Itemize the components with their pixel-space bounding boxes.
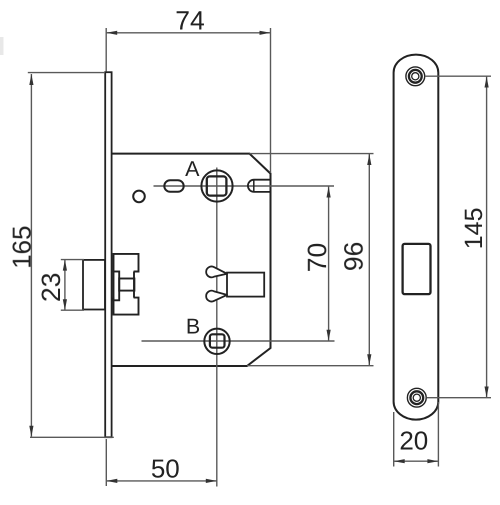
upper spring tab (teardrop) <box>206 267 227 278</box>
left oval slot <box>164 180 183 192</box>
dim 50 line <box>106 439 217 486</box>
dim 20 line <box>394 402 439 467</box>
latch bolt <box>83 260 105 310</box>
latch follower bottom flange <box>114 298 139 315</box>
svg-text:74: 74 <box>175 5 204 35</box>
bottom edge extension line (to 96 dim) <box>247 365 374 367</box>
dim 70 line <box>327 187 331 341</box>
vertical centre line <box>216 168 218 487</box>
dim 145 line <box>425 76 491 398</box>
latch follower narrow strip <box>114 272 120 301</box>
svg-text:23: 23 <box>36 273 66 302</box>
horizontal centre line through A <box>154 185 335 187</box>
small round hole <box>133 191 145 203</box>
right edge slot <box>248 180 271 192</box>
top edge extension line (to 96 dim) <box>250 153 374 155</box>
hub A outer circle <box>201 170 232 201</box>
svg-text:B: B <box>186 314 200 338</box>
dim 74 line <box>106 28 270 173</box>
svg-text:50: 50 <box>151 454 180 484</box>
latch follower neck box <box>119 279 134 291</box>
dim 165 line <box>28 73 114 438</box>
lock body outline <box>112 154 271 366</box>
strike plate bottom screw hole <box>407 388 426 407</box>
svg-text:20: 20 <box>399 426 428 456</box>
svg-text:145: 145 <box>460 208 488 250</box>
dim 23 line <box>61 260 84 311</box>
svg-text:96: 96 <box>339 242 369 271</box>
strike plate (right stadium) <box>394 55 439 420</box>
lower spring tab (teardrop) <box>206 291 227 302</box>
svg-text:A: A <box>185 157 200 181</box>
latch follower inner vertical <box>133 272 135 298</box>
hub B square hole <box>210 334 225 347</box>
strike plate top screw hole <box>406 67 425 86</box>
svg-text:165: 165 <box>7 226 37 269</box>
follower rectangle <box>227 273 264 297</box>
dim 96 line <box>367 154 371 365</box>
hub A square hole <box>207 176 227 195</box>
latch follower top flange <box>114 254 139 272</box>
svg-text:70: 70 <box>302 243 332 272</box>
hub B outer circle <box>204 329 229 354</box>
strike plate latch hole <box>403 244 431 294</box>
faceplate (left tall plate) <box>105 72 111 437</box>
faint scan smudge top-left <box>0 37 4 55</box>
horizontal centre line through B <box>142 340 335 342</box>
right edge slot inner chord <box>253 180 255 192</box>
